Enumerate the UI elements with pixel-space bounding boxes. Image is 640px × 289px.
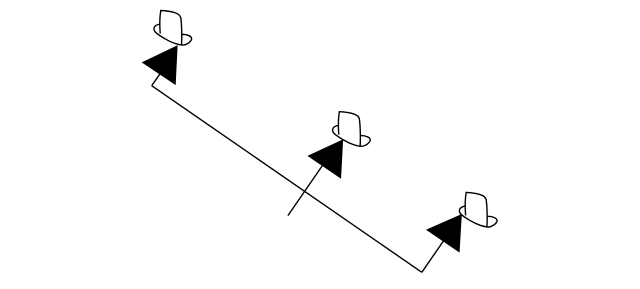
wire drop 1 [152,71,162,86]
wire drop 2 [288,160,327,216]
node station 3 hat [459,192,497,227]
wire drop 3 [422,240,445,273]
node station 1 hat [154,11,192,46]
node station 2 hat [333,112,371,147]
node station 3 arrow [427,215,462,252]
node station 2 arrow [308,140,343,178]
node station 1 arrow [143,46,178,85]
wire bus main [152,86,422,273]
